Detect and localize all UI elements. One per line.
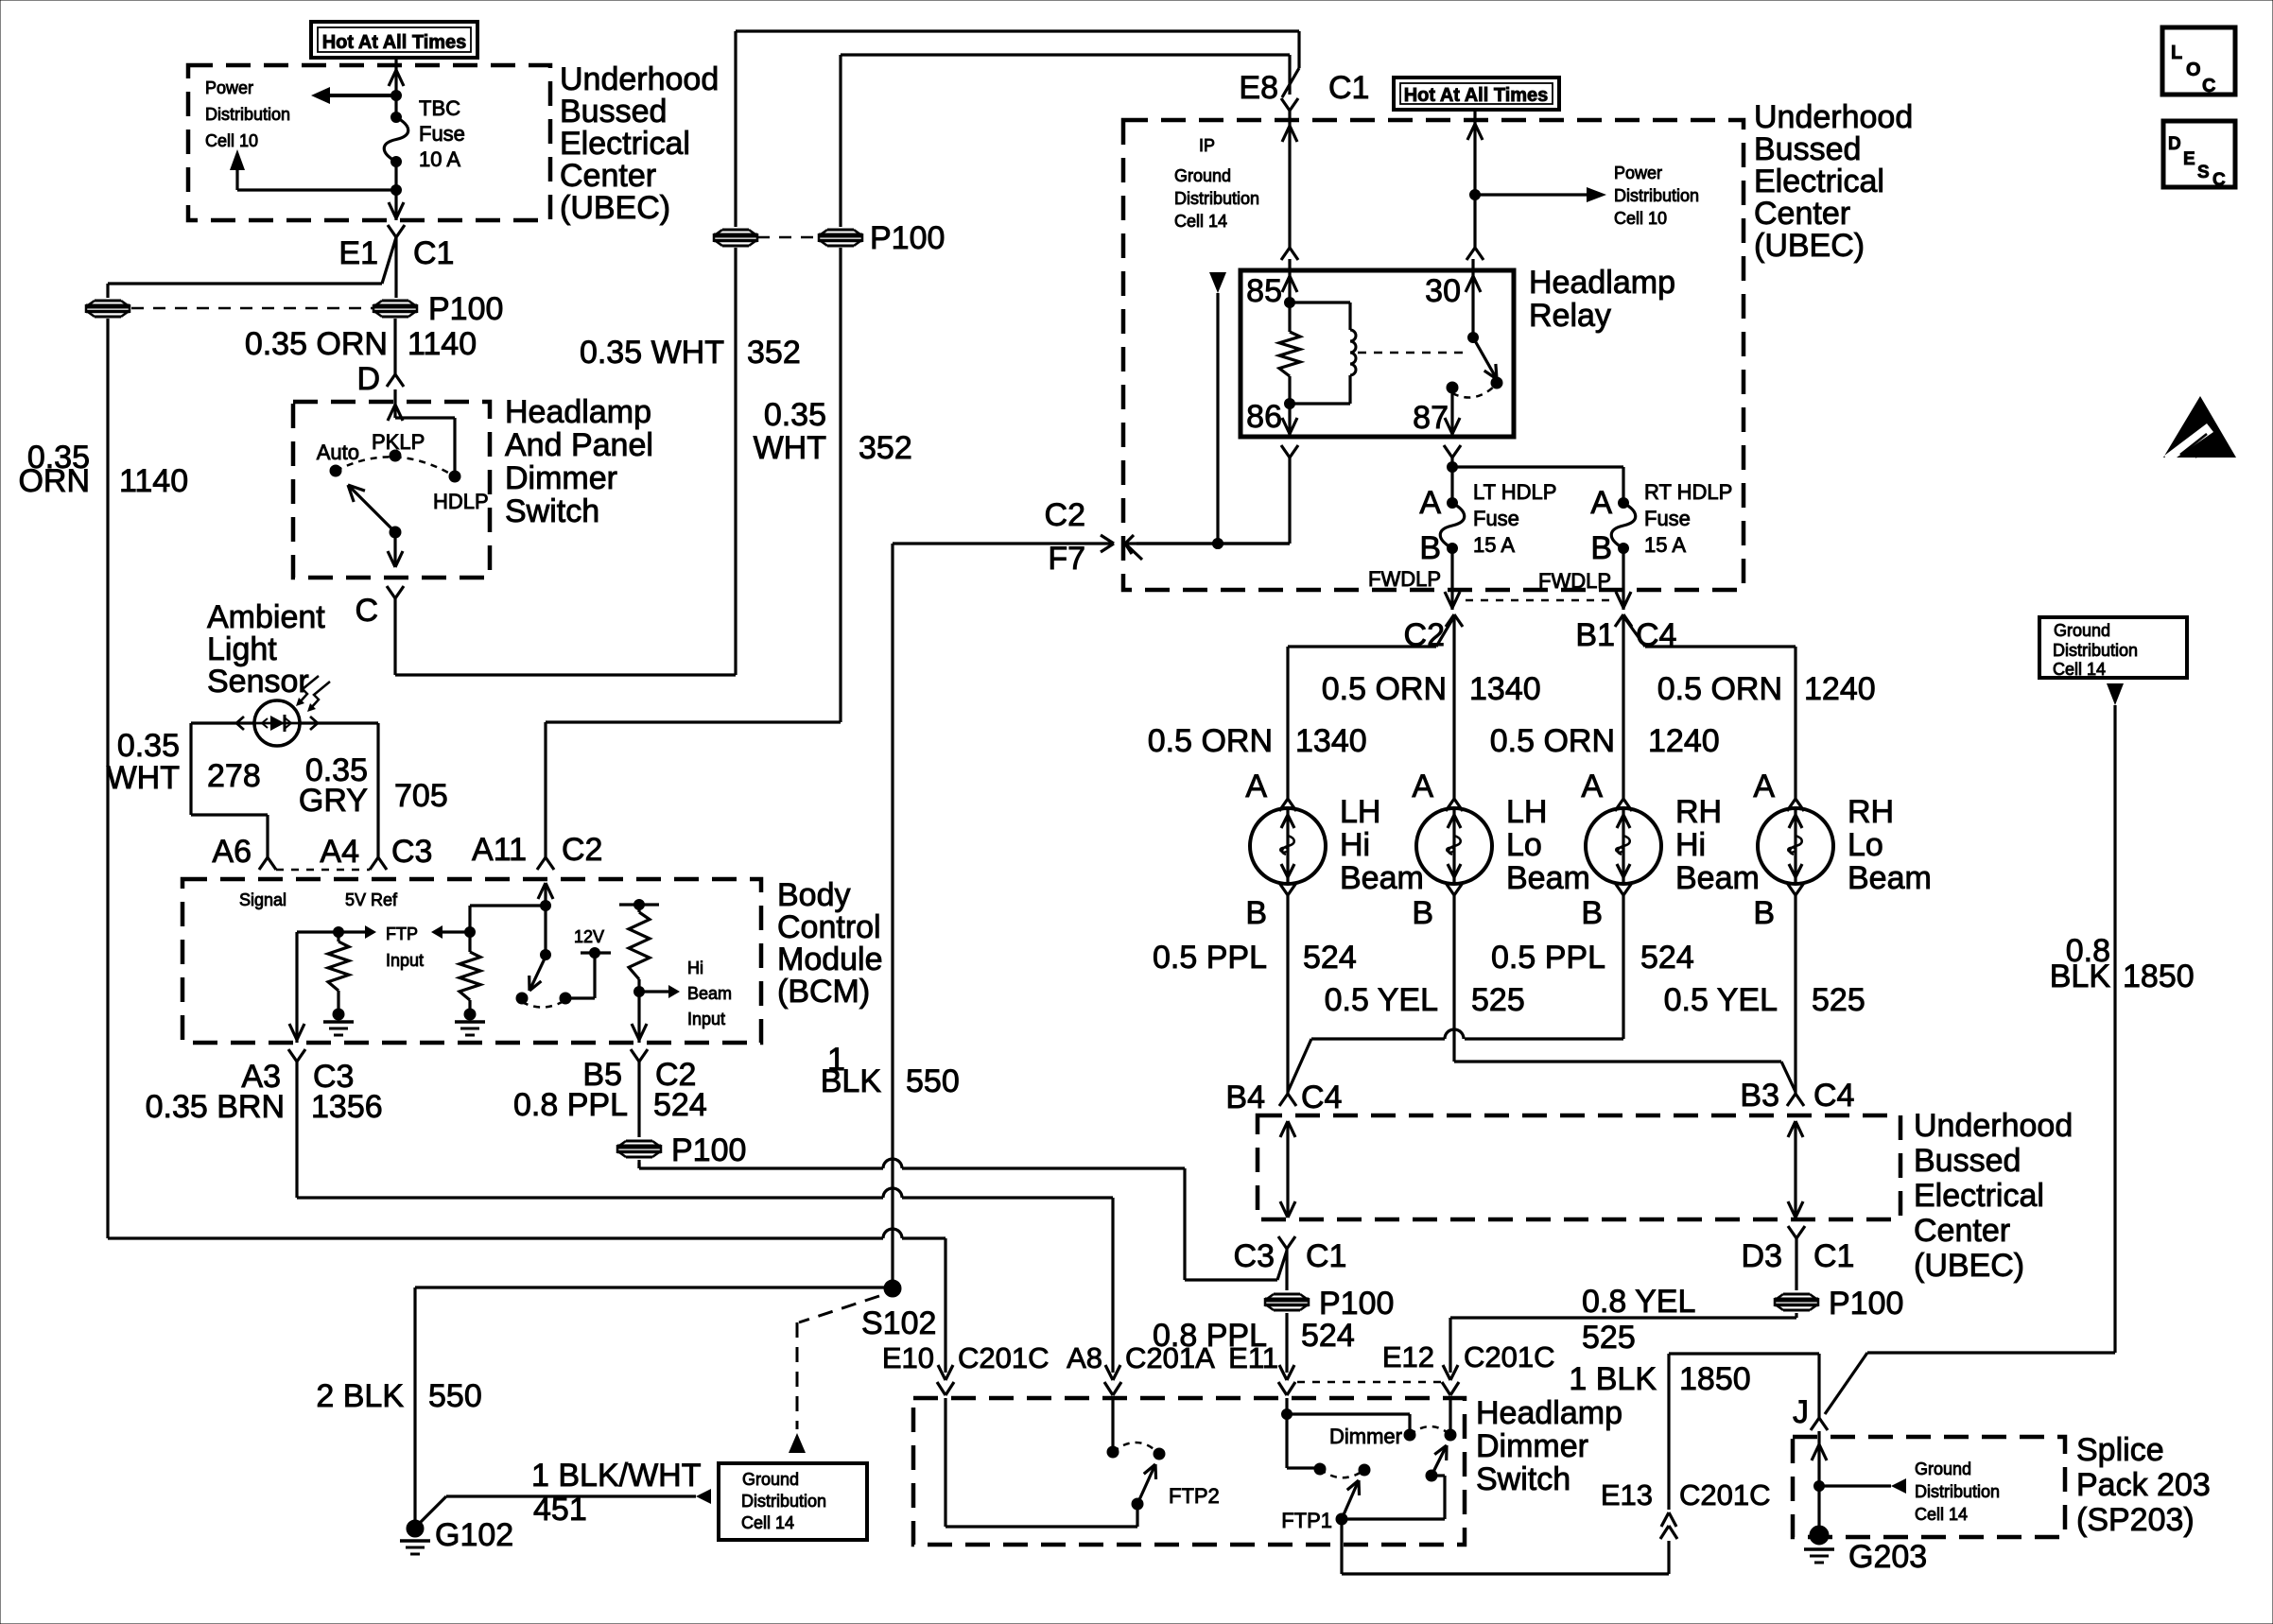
svg-text:RH: RH <box>1848 794 1894 830</box>
svg-text:Beam: Beam <box>1848 860 1932 896</box>
svg-text:E8: E8 <box>1239 70 1278 106</box>
svg-text:G203: G203 <box>1848 1539 1927 1575</box>
svg-text:A: A <box>1419 485 1441 521</box>
svg-text:E1: E1 <box>338 235 378 271</box>
svg-text:Hi: Hi <box>1340 827 1370 863</box>
svg-text:(UBEC): (UBEC) <box>1754 228 1865 264</box>
svg-text:451: 451 <box>533 1492 587 1528</box>
svg-text:P100: P100 <box>1319 1286 1394 1322</box>
svg-text:Beam: Beam <box>1506 860 1590 896</box>
svg-text:A: A <box>1245 769 1267 804</box>
svg-text:HDLP: HDLP <box>433 490 489 513</box>
svg-text:Distribution: Distribution <box>741 1492 826 1511</box>
svg-text:C2: C2 <box>562 832 602 868</box>
svg-text:Auto: Auto <box>317 441 359 464</box>
svg-text:FWDLP: FWDLP <box>1368 567 1441 591</box>
svg-text:B: B <box>1245 895 1267 931</box>
svg-text:278: 278 <box>207 758 261 794</box>
svg-text:FTP2: FTP2 <box>1169 1484 1220 1508</box>
svg-text:85: 85 <box>1246 273 1282 309</box>
svg-text:G102: G102 <box>435 1517 513 1553</box>
svg-text:GRY: GRY <box>299 783 368 819</box>
svg-text:Switch: Switch <box>1476 1461 1570 1497</box>
svg-text:525: 525 <box>1812 982 1865 1018</box>
svg-text:C201C: C201C <box>1679 1478 1771 1512</box>
svg-text:0.5 YEL: 0.5 YEL <box>1325 982 1438 1018</box>
svg-text:Module: Module <box>777 942 883 977</box>
svg-text:0.5 ORN: 0.5 ORN <box>1322 671 1447 707</box>
svg-text:LH: LH <box>1340 794 1380 830</box>
svg-text:C1: C1 <box>1306 1238 1346 1274</box>
svg-text:Cell 10: Cell 10 <box>1614 209 1667 228</box>
svg-text:B4: B4 <box>1225 1080 1265 1115</box>
svg-text:Distribution: Distribution <box>205 105 290 124</box>
svg-text:Underhood: Underhood <box>1914 1108 2073 1144</box>
svg-text:C1: C1 <box>413 235 454 271</box>
svg-text:1140: 1140 <box>119 463 188 499</box>
svg-text:And Panel: And Panel <box>505 427 653 463</box>
svg-text:L: L <box>2171 43 2182 63</box>
svg-text:Beam: Beam <box>1340 860 1424 896</box>
svg-text:C3: C3 <box>391 834 432 870</box>
svg-text:E13: E13 <box>1601 1478 1653 1512</box>
svg-text:10 A: 10 A <box>419 147 460 171</box>
svg-text:87: 87 <box>1413 400 1449 436</box>
svg-text:LT HDLP: LT HDLP <box>1473 480 1556 504</box>
svg-text:Cell 14: Cell 14 <box>2053 660 2106 679</box>
svg-text:Hi: Hi <box>687 959 703 977</box>
svg-text:Light: Light <box>207 631 277 667</box>
svg-text:0.8 PPL: 0.8 PPL <box>513 1087 628 1123</box>
svg-text:P100: P100 <box>1829 1286 1903 1322</box>
svg-text:Bussed: Bussed <box>560 94 667 130</box>
svg-text:Center: Center <box>1754 196 1850 232</box>
svg-text:P100: P100 <box>870 220 945 256</box>
svg-text:Splice: Splice <box>2076 1432 2164 1468</box>
svg-text:Cell 14: Cell 14 <box>1174 212 1227 231</box>
svg-text:B: B <box>1590 530 1612 566</box>
svg-text:E11: E11 <box>1228 1341 1278 1374</box>
svg-text:524: 524 <box>1303 940 1357 976</box>
svg-text:1340: 1340 <box>1295 723 1367 759</box>
svg-text:0.35 WHT: 0.35 WHT <box>580 335 724 371</box>
svg-text:Fuse: Fuse <box>1473 507 1519 530</box>
svg-text:524: 524 <box>1640 940 1694 976</box>
svg-text:C: C <box>2202 76 2215 96</box>
svg-text:A: A <box>1753 769 1775 804</box>
svg-text:D: D <box>356 361 380 397</box>
svg-text:A11: A11 <box>472 832 527 868</box>
svg-text:A: A <box>1590 485 1612 521</box>
svg-text:(SP203): (SP203) <box>2076 1502 2195 1538</box>
svg-text:524: 524 <box>653 1087 707 1123</box>
svg-text:Hi: Hi <box>1675 827 1706 863</box>
svg-text:Hot At All Times: Hot At All Times <box>322 32 467 53</box>
svg-text:Center: Center <box>1914 1213 2010 1249</box>
svg-text:Underhood: Underhood <box>560 61 719 97</box>
svg-text:D3: D3 <box>1742 1238 1782 1274</box>
svg-text:1 BLK: 1 BLK <box>1569 1361 1657 1397</box>
svg-text:Cell 10: Cell 10 <box>205 131 258 150</box>
svg-text:Electrical: Electrical <box>1754 164 1884 199</box>
svg-text:Distribution: Distribution <box>1614 186 1699 205</box>
svg-text:705: 705 <box>394 778 448 814</box>
svg-text:C1: C1 <box>1328 70 1369 106</box>
svg-text:0.35 BRN: 0.35 BRN <box>146 1089 285 1125</box>
svg-text:0.5 YEL: 0.5 YEL <box>1664 982 1778 1018</box>
svg-text:B: B <box>1581 895 1603 931</box>
svg-text:Headlamp: Headlamp <box>1529 265 1675 301</box>
svg-text:15 A: 15 A <box>1644 533 1686 557</box>
svg-text:Distribution: Distribution <box>2053 641 2138 660</box>
svg-text:F7: F7 <box>1048 541 1085 577</box>
svg-text:0.5 ORN: 0.5 ORN <box>1490 723 1615 759</box>
svg-text:Fuse: Fuse <box>1644 507 1691 530</box>
svg-text:C3: C3 <box>1234 1238 1275 1274</box>
svg-text:BLK: BLK <box>2050 959 2111 994</box>
svg-text:O: O <box>2186 60 2201 80</box>
svg-text:RT HDLP: RT HDLP <box>1644 480 1732 504</box>
svg-text:C: C <box>355 593 378 629</box>
svg-text:FWDLP: FWDLP <box>1538 569 1611 593</box>
svg-text:86: 86 <box>1246 399 1282 435</box>
svg-text:Pack 203: Pack 203 <box>2076 1467 2211 1503</box>
svg-text:Distribution: Distribution <box>1174 189 1259 208</box>
svg-text:Power: Power <box>205 78 253 97</box>
svg-text:E12: E12 <box>1382 1340 1434 1373</box>
svg-text:352: 352 <box>859 430 912 466</box>
svg-text:ORN: ORN <box>18 463 90 499</box>
svg-text:Relay: Relay <box>1529 298 1611 334</box>
svg-text:550: 550 <box>906 1063 960 1099</box>
svg-text:BLK: BLK <box>821 1063 882 1099</box>
svg-text:1240: 1240 <box>1804 671 1876 707</box>
svg-text:Underhood: Underhood <box>1754 99 1913 135</box>
svg-text:Ground: Ground <box>1915 1460 1971 1478</box>
svg-text:E10: E10 <box>882 1341 934 1374</box>
svg-text:1240: 1240 <box>1648 723 1720 759</box>
svg-text:A8: A8 <box>1067 1341 1102 1374</box>
svg-text:IP: IP <box>1199 136 1215 155</box>
svg-text:Body: Body <box>777 877 851 913</box>
svg-text:Fuse: Fuse <box>419 122 465 146</box>
svg-text:352: 352 <box>747 335 801 371</box>
svg-text:(UBEC): (UBEC) <box>1914 1248 2024 1284</box>
svg-text:0.35: 0.35 <box>764 397 826 433</box>
svg-text:524: 524 <box>1301 1318 1355 1354</box>
svg-text:12V: 12V <box>574 927 604 946</box>
svg-text:A6: A6 <box>212 834 252 870</box>
svg-text:D: D <box>2168 134 2181 154</box>
svg-text:Distribution: Distribution <box>1915 1482 2000 1501</box>
svg-text:0.5 PPL: 0.5 PPL <box>1153 940 1267 976</box>
svg-text:1140: 1140 <box>408 326 477 362</box>
svg-text:15 A: 15 A <box>1473 533 1515 557</box>
svg-text:1340: 1340 <box>1469 671 1541 707</box>
svg-text:Ground: Ground <box>2054 621 2110 640</box>
svg-text:Dimmer: Dimmer <box>505 460 617 496</box>
svg-text:Dimmer: Dimmer <box>1476 1428 1588 1464</box>
svg-text:1850: 1850 <box>2123 959 2195 994</box>
svg-text:PKLP: PKLP <box>372 430 425 454</box>
svg-text:B3: B3 <box>1740 1078 1779 1114</box>
svg-text:Bussed: Bussed <box>1914 1143 2021 1179</box>
svg-text:Electrical: Electrical <box>560 126 690 162</box>
svg-text:RH: RH <box>1675 794 1722 830</box>
svg-text:5V Ref: 5V Ref <box>345 890 398 909</box>
svg-text:0.35 ORN: 0.35 ORN <box>245 326 388 362</box>
svg-text:Ambient: Ambient <box>207 599 325 635</box>
svg-text:C1: C1 <box>1813 1238 1854 1274</box>
svg-text:Ground: Ground <box>742 1470 799 1489</box>
svg-text:P100: P100 <box>428 291 503 327</box>
svg-text:30: 30 <box>1425 273 1461 309</box>
svg-text:Hot At All Times: Hot At All Times <box>1404 85 1549 106</box>
svg-text:Center: Center <box>560 158 656 194</box>
svg-text:J: J <box>1793 1394 1809 1430</box>
svg-text:S: S <box>2197 163 2210 182</box>
svg-text:Headlamp: Headlamp <box>1476 1395 1622 1431</box>
svg-text:C2: C2 <box>1045 497 1085 533</box>
svg-text:C4: C4 <box>1301 1080 1342 1115</box>
svg-text:0.5 ORN: 0.5 ORN <box>1657 671 1782 707</box>
svg-text:B: B <box>1419 530 1441 566</box>
svg-text:C201C: C201C <box>958 1341 1050 1374</box>
svg-text:Input: Input <box>687 1010 725 1028</box>
svg-text:0.8 YEL: 0.8 YEL <box>1582 1284 1695 1320</box>
svg-text:525: 525 <box>1471 982 1525 1018</box>
svg-text:B: B <box>1412 895 1433 931</box>
svg-text:A: A <box>1581 769 1603 804</box>
svg-text:TBC: TBC <box>419 96 460 120</box>
svg-text:Dimmer: Dimmer <box>1329 1425 1402 1448</box>
svg-text:C201C: C201C <box>1464 1340 1555 1373</box>
svg-text:(UBEC): (UBEC) <box>560 190 670 226</box>
svg-text:Bussed: Bussed <box>1754 131 1861 167</box>
svg-text:Ground: Ground <box>1174 166 1231 185</box>
svg-text:Beam: Beam <box>687 984 732 1003</box>
svg-text:Headlamp: Headlamp <box>505 394 651 430</box>
svg-text:0.5 ORN: 0.5 ORN <box>1148 723 1273 759</box>
svg-text:A4: A4 <box>320 834 359 870</box>
svg-text:Electrical: Electrical <box>1914 1178 2044 1214</box>
svg-text:Sensor: Sensor <box>207 664 309 700</box>
svg-text:LH: LH <box>1506 794 1547 830</box>
svg-text:550: 550 <box>428 1378 482 1414</box>
svg-text:C4: C4 <box>1813 1078 1854 1114</box>
svg-text:Control: Control <box>777 909 881 945</box>
svg-text:C201A: C201A <box>1125 1341 1215 1374</box>
svg-text:1356: 1356 <box>311 1089 383 1125</box>
svg-text:Input: Input <box>386 951 424 970</box>
svg-text:Lo: Lo <box>1506 827 1542 863</box>
svg-text:0.35: 0.35 <box>117 728 180 764</box>
svg-text:1 BLK/WHT: 1 BLK/WHT <box>531 1458 701 1494</box>
svg-text:Signal: Signal <box>239 890 286 909</box>
svg-text:1850: 1850 <box>1679 1361 1751 1397</box>
svg-text:C: C <box>2212 170 2226 190</box>
svg-text:WHT: WHT <box>107 760 180 796</box>
svg-text:Beam: Beam <box>1675 860 1760 896</box>
svg-text:E: E <box>2183 149 2195 169</box>
svg-text:FTP: FTP <box>386 924 418 943</box>
svg-text:S102: S102 <box>861 1305 936 1341</box>
svg-text:Power: Power <box>1614 164 1662 182</box>
svg-text:Cell 14: Cell 14 <box>1915 1505 1968 1524</box>
svg-text:A: A <box>1412 769 1433 804</box>
svg-text:FTP1: FTP1 <box>1281 1509 1332 1532</box>
svg-text:(BCM): (BCM) <box>777 974 870 1010</box>
svg-text:Lo: Lo <box>1848 827 1883 863</box>
svg-text:P100: P100 <box>671 1132 746 1168</box>
svg-text:WHT: WHT <box>754 430 826 466</box>
svg-text:B: B <box>1753 895 1775 931</box>
svg-text:525: 525 <box>1582 1320 1636 1356</box>
svg-text:2 BLK: 2 BLK <box>316 1378 404 1414</box>
svg-text:0.5 PPL: 0.5 PPL <box>1491 940 1605 976</box>
svg-text:Cell 14: Cell 14 <box>741 1513 794 1532</box>
svg-text:B1: B1 <box>1575 617 1615 653</box>
svg-text:Switch: Switch <box>505 493 599 529</box>
